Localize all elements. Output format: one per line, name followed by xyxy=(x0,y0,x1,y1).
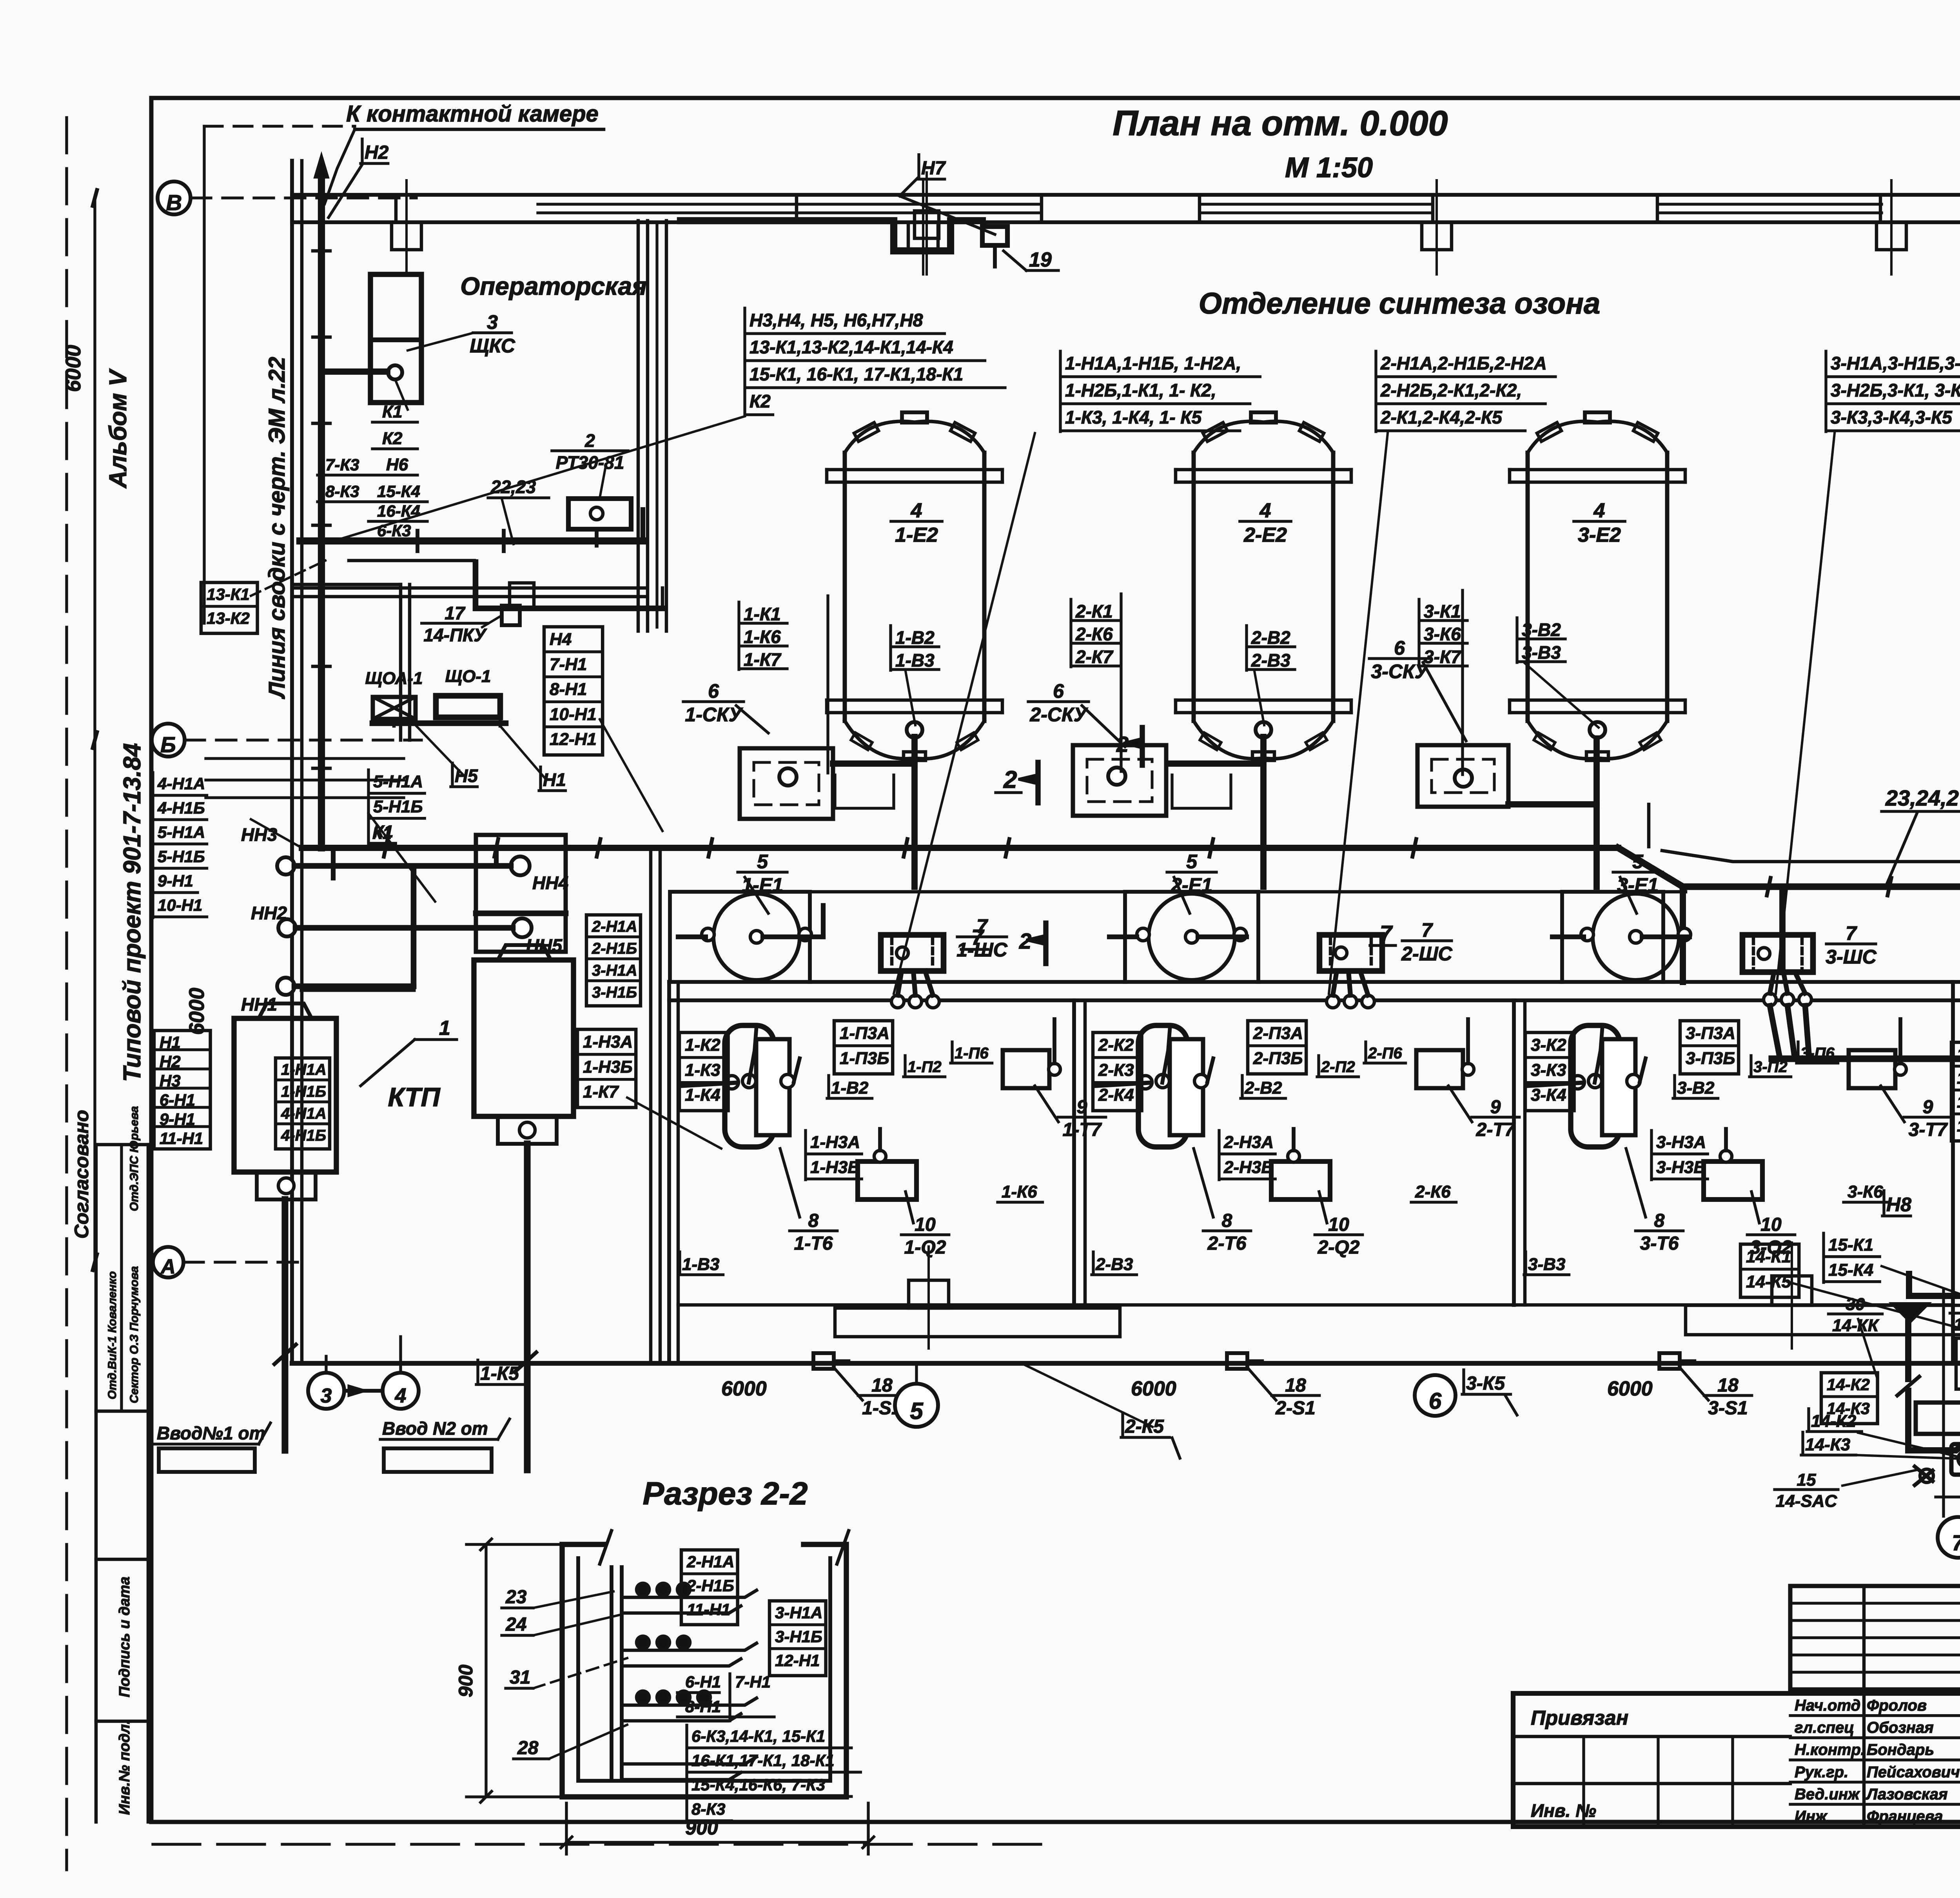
svg-text:Н1: Н1 xyxy=(160,1033,181,1052)
stack H1 H2 H3 left xyxy=(154,1031,211,1149)
label 1-K5 xyxy=(476,1360,479,1384)
column marks top xyxy=(392,180,421,274)
label H2 top xyxy=(361,139,363,163)
stack H4 7-H1 xyxy=(544,627,603,755)
svg-text:2-К1,2-К4,2-К5: 2-К1,2-К4,2-К5 xyxy=(1380,407,1503,427)
svg-text:1-К6: 1-К6 xyxy=(744,626,781,647)
svg-text:1-Н1А,1-Н1Б, 1-Н2А,: 1-Н1А,1-Н1Б, 1-Н2А, xyxy=(1065,353,1241,373)
compressor risers heavy xyxy=(1897,1322,1960,1450)
svg-text:1-ШС: 1-ШС xyxy=(956,939,1007,961)
svg-text:1-П2: 1-П2 xyxy=(907,1058,942,1076)
svg-text:1-Н3Б: 1-Н3Б xyxy=(810,1158,860,1177)
svg-text:3-В3: 3-В3 xyxy=(1528,1255,1565,1274)
svg-text:13-К2: 13-К2 xyxy=(207,609,250,628)
svg-text:3-К5: 3-К5 xyxy=(1466,1373,1505,1394)
svg-text:11-Н1: 11-Н1 xyxy=(687,1600,730,1619)
svg-text:7: 7 xyxy=(1846,922,1857,944)
cell 1 T7 xyxy=(1003,1050,1049,1088)
svg-text:1-В2: 1-В2 xyxy=(895,627,935,648)
svg-text:3-К1: 3-К1 xyxy=(1424,601,1461,621)
svg-text:15-К1, 16-К1, 17-К1,18-К1: 15-К1, 16-К1, 17-К1,18-К1 xyxy=(750,364,963,384)
svg-text:Отд.ВиК-1 Коваленко: Отд.ВиК-1 Коваленко xyxy=(106,1271,119,1399)
stack 1-H1A xyxy=(1059,351,1062,432)
vvod boxes xyxy=(159,1448,255,1472)
P connectors under ShS 3 xyxy=(1764,973,1811,1006)
svg-text:2-П3А: 2-П3А xyxy=(1253,1023,1303,1043)
svg-text:6000: 6000 xyxy=(1131,1377,1176,1400)
label 2-K5 xyxy=(1121,1413,1124,1437)
svg-text:ЩО-1: ЩО-1 xyxy=(445,667,491,686)
KTP feeder cables down xyxy=(274,1144,536,1470)
svg-text:Инв.№ подл.: Инв.№ подл. xyxy=(116,1720,133,1815)
drawing frame xyxy=(149,98,154,1822)
svg-text:2-ШС: 2-ШС xyxy=(1401,943,1452,965)
compressor units xyxy=(1916,1403,1960,1434)
svg-text:6: 6 xyxy=(1394,637,1405,659)
stack 1-H1A 1-H1B inside KTP xyxy=(276,1058,330,1149)
svg-text:Инж: Инж xyxy=(1795,1808,1828,1825)
svg-text:28: 28 xyxy=(517,1738,539,1758)
svg-text:2-Н2Б,2-К1,2-К2,: 2-Н2Б,2-К1,2-К2, xyxy=(1380,380,1522,400)
stack 14-K1 14-K5 xyxy=(1740,1244,1799,1297)
svg-text:Н4: Н4 xyxy=(550,630,572,649)
svg-text:5-Н1А: 5-Н1А xyxy=(158,823,205,842)
svg-text:1-Н3Б: 1-Н3Б xyxy=(583,1057,633,1076)
cell 2 S1 switch xyxy=(1227,1353,1247,1369)
leader stacks to pumps xyxy=(894,433,1035,994)
vessel 4075 xyxy=(1510,412,1685,760)
svg-text:6000: 6000 xyxy=(721,1377,767,1400)
svg-text:1-Н3А: 1-Н3А xyxy=(810,1132,860,1152)
cell platforms xyxy=(835,1308,1120,1337)
svg-text:2-П2: 2-П2 xyxy=(1321,1058,1355,1076)
heavy cable to contact chamber xyxy=(318,169,325,848)
KTP east wall xyxy=(649,848,653,1363)
svg-text:2-К2: 2-К2 xyxy=(1098,1035,1134,1054)
svg-text:9: 9 xyxy=(1923,1097,1933,1118)
svg-text:3-П6: 3-П6 xyxy=(1800,1045,1835,1062)
svg-text:Н8: Н8 xyxy=(1886,1194,1911,1216)
svg-text:2-Н1А: 2-Н1А xyxy=(592,918,637,935)
svg-text:3: 3 xyxy=(487,311,498,333)
svg-text:2-Q2: 2-Q2 xyxy=(1318,1237,1360,1258)
svg-text:16-К4: 16-К4 xyxy=(377,502,420,520)
svg-text:15-К4,16-К6, 7-К3: 15-К4,16-К6, 7-К3 xyxy=(691,1776,825,1794)
svg-text:6: 6 xyxy=(1429,1388,1442,1414)
svg-text:2-В3: 2-В3 xyxy=(1251,650,1290,670)
svg-text:7-К3: 7-К3 xyxy=(325,455,359,474)
svg-text:14-ПКУ: 14-ПКУ xyxy=(423,625,487,645)
SKU box xyxy=(740,748,833,819)
svg-text:17-К2: 17-К2 xyxy=(1957,1069,1960,1087)
svg-text:7: 7 xyxy=(976,915,988,937)
svg-text:1-Н3А: 1-Н3А xyxy=(583,1032,633,1051)
svg-text:1-К6: 1-К6 xyxy=(1002,1182,1037,1201)
svg-text:Рук.гр.: Рук.гр. xyxy=(1795,1764,1848,1781)
cell 2 wires xyxy=(1096,1083,1151,1086)
svg-text:Операторская: Операторская xyxy=(460,272,647,300)
svg-text:17-К1: 17-К1 xyxy=(1957,1045,1960,1063)
stack 5-H1A 5-H1B K1 xyxy=(367,770,370,844)
svg-text:13-К1,13-К2,14-К1,14-К4: 13-К1,13-К2,14-К1,14-К4 xyxy=(750,337,953,357)
stacks 1-V2 1-V3 xyxy=(889,626,892,670)
svg-text:6-Н1: 6-Н1 xyxy=(685,1673,721,1691)
top wall band xyxy=(292,195,1960,222)
pump 5 circle xyxy=(1581,894,1691,980)
svg-text:7: 7 xyxy=(1952,1530,1960,1555)
svg-text:15: 15 xyxy=(1797,1470,1816,1490)
svg-text:15-К4: 15-К4 xyxy=(1828,1260,1873,1279)
stack 15-K1 15-K4 xyxy=(1822,1233,1825,1283)
trunk right heavy xyxy=(1772,1049,1960,1069)
svg-text:Сектор О.З Порчумова: Сектор О.З Порчумова xyxy=(128,1266,141,1403)
svg-text:5-Н1Б: 5-Н1Б xyxy=(373,797,423,816)
svg-text:К2: К2 xyxy=(382,429,403,448)
svg-text:17-К3: 17-К3 xyxy=(1957,1092,1960,1111)
axis A circle xyxy=(153,1247,183,1277)
svg-text:Францева: Францева xyxy=(1867,1808,1943,1825)
svg-text:1-К1: 1-К1 xyxy=(744,604,781,624)
svg-text:4-Н1А: 4-Н1А xyxy=(281,1105,327,1122)
svg-text:1-К7: 1-К7 xyxy=(744,649,782,670)
pump bays xyxy=(670,892,810,982)
svg-text:18: 18 xyxy=(1717,1375,1739,1396)
svg-text:6-Н1: 6-Н1 xyxy=(160,1091,195,1109)
svg-text:М 1:50: М 1:50 xyxy=(1285,152,1373,183)
svg-text:Н1: Н1 xyxy=(543,769,566,790)
svg-text:Инв. №: Инв. № xyxy=(1531,1800,1596,1821)
P connectors under ShS 1 xyxy=(891,971,939,1008)
svg-text:5-Н1Б: 5-Н1Б xyxy=(158,847,205,866)
cell 1 Q2 xyxy=(858,1161,916,1199)
svg-text:2-П3Б: 2-П3Б xyxy=(1253,1049,1303,1068)
label H7 xyxy=(917,155,920,178)
svg-text:2-В2: 2-В2 xyxy=(1251,627,1290,648)
svg-text:3-К7: 3-К7 xyxy=(1424,646,1462,667)
svg-text:Отд.ЭПС Юрьева: Отд.ЭПС Юрьева xyxy=(128,1106,141,1211)
device RT30 xyxy=(568,499,631,546)
svg-text:900: 900 xyxy=(455,1664,477,1697)
svg-text:2-К3: 2-К3 xyxy=(1098,1060,1134,1080)
svg-text:10: 10 xyxy=(1760,1214,1782,1235)
leaders H5 H1 xyxy=(416,725,463,774)
svg-text:4: 4 xyxy=(1593,499,1605,522)
bay connecting line xyxy=(810,890,1125,894)
svg-text:1-Е1: 1-Е1 xyxy=(742,874,783,896)
svg-text:7: 7 xyxy=(1421,919,1433,941)
sheet outer edge line xyxy=(65,118,68,1870)
svg-text:8: 8 xyxy=(808,1210,819,1231)
ShS box xyxy=(1742,935,1813,972)
svg-text:3-Н1А,3-Н1Б,3-Н2А: 3-Н1А,3-Н1Б,3-Н2А xyxy=(1831,353,1960,373)
KTP transformer 1 xyxy=(234,1003,336,1199)
stack H3..K2 xyxy=(743,308,746,416)
svg-text:3-К6: 3-К6 xyxy=(1847,1182,1883,1201)
cells top wall xyxy=(669,980,1960,984)
svg-text:6000: 6000 xyxy=(1607,1377,1653,1400)
svg-text:К2: К2 xyxy=(750,391,771,411)
stack-to-SKU leader lines xyxy=(826,596,829,773)
svg-text:3-Н3Б: 3-Н3Б xyxy=(1656,1158,1706,1177)
svg-text:24: 24 xyxy=(505,1614,526,1635)
svg-text:3-П3А: 3-П3А xyxy=(1686,1023,1735,1043)
svg-text:6-К3,14-К1, 15-К1: 6-К3,14-К1, 15-К1 xyxy=(691,1727,825,1746)
svg-text:В: В xyxy=(166,190,182,215)
svg-text:2: 2 xyxy=(584,430,595,451)
motor switches xyxy=(1920,1469,1933,1482)
svg-text:3-СКУ: 3-СКУ xyxy=(1371,660,1429,682)
section flag 7 low xyxy=(961,925,988,949)
svg-text:2-Е2: 2-Е2 xyxy=(1243,524,1287,546)
pump 5 circle xyxy=(702,894,811,980)
svg-text:1-Н1Б: 1-Н1Б xyxy=(281,1083,326,1100)
svg-text:Ввод N2 от: Ввод N2 от xyxy=(382,1418,488,1439)
cell 1 wires xyxy=(682,1083,737,1086)
svg-text:3-Н3А: 3-Н3А xyxy=(1656,1132,1706,1152)
cell 3 T7 xyxy=(1849,1050,1895,1088)
svg-text:1-К4: 1-К4 xyxy=(685,1085,720,1105)
svg-text:4-Н1Б: 4-Н1Б xyxy=(281,1127,326,1144)
svg-text:1-К2: 1-К2 xyxy=(685,1035,720,1054)
svg-text:НН5: НН5 xyxy=(526,935,563,956)
svg-text:10: 10 xyxy=(1328,1214,1349,1235)
svg-text:11-Н1: 11-Н1 xyxy=(160,1129,203,1148)
SKU box xyxy=(1417,745,1508,807)
svg-text:2-П6: 2-П6 xyxy=(1368,1045,1402,1062)
section dim 900 bottom xyxy=(561,1803,874,1854)
svg-text:1-П6: 1-П6 xyxy=(955,1045,989,1062)
svg-text:Н3,Н4, Н5, Н6,Н7,Н8: Н3,Н4, Н5, Н6,Н7,Н8 xyxy=(750,310,923,330)
svg-text:Н.контр.: Н.контр. xyxy=(1795,1741,1865,1758)
svg-text:14-К5: 14-К5 xyxy=(1746,1272,1791,1291)
svg-text:23: 23 xyxy=(505,1587,527,1608)
KTP transformer 2 xyxy=(474,945,573,1144)
svg-text:2: 2 xyxy=(1003,766,1017,793)
svg-text:4-Н1Б: 4-Н1Б xyxy=(157,799,205,817)
svg-text:К контактной камере: К контактной камере xyxy=(346,101,599,127)
boxed 13-K1 13-K2 xyxy=(201,582,258,633)
svg-text:3-Т7: 3-Т7 xyxy=(1909,1120,1948,1140)
compressor leaders xyxy=(1842,1470,1917,1486)
compressor motors xyxy=(1951,1444,1960,1475)
axis V circle xyxy=(158,181,191,214)
south wall xyxy=(292,1361,1960,1366)
svg-text:2-Т6: 2-Т6 xyxy=(1207,1233,1247,1254)
svg-text:1: 1 xyxy=(439,1017,450,1040)
svg-text:1-Е2: 1-Е2 xyxy=(895,524,938,546)
svg-text:3-В2: 3-В2 xyxy=(1677,1078,1715,1098)
svg-text:НН1: НН1 xyxy=(241,994,277,1014)
svg-text:2-СКУ: 2-СКУ xyxy=(1029,704,1088,726)
svg-text:3-К6: 3-К6 xyxy=(1424,624,1461,644)
machine T6 xyxy=(1571,1025,1640,1147)
svg-text:6000: 6000 xyxy=(62,345,85,392)
svg-text:ЩОА-1: ЩОА-1 xyxy=(365,669,423,688)
svg-text:5-Н1А: 5-Н1А xyxy=(373,772,423,791)
svg-text:2-В3: 2-В3 xyxy=(1095,1255,1133,1274)
svg-text:2-Н3А: 2-Н3А xyxy=(1223,1132,1274,1152)
svg-text:9: 9 xyxy=(1490,1097,1501,1118)
svg-text:Н5: Н5 xyxy=(455,766,478,786)
svg-text:14-К1: 14-К1 xyxy=(1746,1247,1791,1266)
svg-text:3-Н1Б: 3-Н1Б xyxy=(775,1628,822,1646)
stacks 1-K1 1-K6 1-K7 vessels xyxy=(737,602,740,670)
svg-text:17: 17 xyxy=(445,603,466,623)
H8 grid line xyxy=(1942,1290,1945,1516)
label H8 xyxy=(1882,1191,1885,1216)
svg-text:РТ30-81: РТ30-81 xyxy=(556,452,624,473)
svg-text:1-К7: 1-К7 xyxy=(583,1082,619,1101)
svg-text:14-К2: 14-К2 xyxy=(1827,1375,1870,1394)
grid circle 6 xyxy=(1415,1375,1455,1416)
svg-text:1-П3Б: 1-П3Б xyxy=(840,1049,889,1068)
svg-text:13-К1: 13-К1 xyxy=(207,585,250,604)
svg-text:Подпись и дата: Подпись и дата xyxy=(116,1577,133,1697)
svg-text:2-К4: 2-К4 xyxy=(1098,1085,1134,1105)
svg-text:3-В2: 3-В2 xyxy=(1522,619,1561,640)
cell 3 wires xyxy=(1528,1083,1583,1086)
svg-text:14-SAC: 14-SAC xyxy=(1776,1492,1838,1511)
svg-text:8-К3: 8-К3 xyxy=(325,482,359,501)
svg-text:1-К5: 1-К5 xyxy=(480,1363,519,1384)
svg-text:3-К2: 3-К2 xyxy=(1531,1035,1566,1054)
svg-text:Н7: Н7 xyxy=(921,158,946,179)
svg-text:8-Н1: 8-Н1 xyxy=(685,1697,721,1716)
svg-text:6000: 6000 xyxy=(185,988,209,1035)
svg-text:5: 5 xyxy=(757,851,768,873)
cell 3 Q2 xyxy=(1704,1161,1762,1199)
svg-text:2-Н1А,2-Н1Б,2-Н2А: 2-Н1А,2-Н1Б,2-Н2А xyxy=(1380,353,1547,373)
svg-text:2-К5: 2-К5 xyxy=(1125,1416,1164,1437)
section flag 2 low xyxy=(1019,923,1046,964)
section 2-2 channel xyxy=(562,1531,849,1797)
svg-text:10-Н1: 10-Н1 xyxy=(550,705,597,724)
svg-text:5: 5 xyxy=(1632,851,1644,873)
svg-text:Фролов: Фролов xyxy=(1867,1697,1927,1714)
section flag 2 mid b xyxy=(1116,728,1142,765)
machine T6 xyxy=(1138,1025,1208,1147)
svg-text:15-К1: 15-К1 xyxy=(1828,1235,1873,1254)
svg-text:4: 4 xyxy=(395,1384,407,1407)
svg-text:5: 5 xyxy=(910,1398,924,1424)
svg-text:2-К6: 2-К6 xyxy=(1075,624,1113,644)
svg-text:2-К7: 2-К7 xyxy=(1075,646,1114,667)
svg-text:Н2: Н2 xyxy=(365,142,389,163)
cell 3 S1 switch xyxy=(1659,1353,1680,1369)
axis line bottom right xyxy=(1936,1495,1960,1498)
svg-text:НН3: НН3 xyxy=(241,824,277,845)
svg-text:1-Q2: 1-Q2 xyxy=(904,1237,946,1258)
svg-text:Линия сводки с черт. ЭМ л.22: Линия сводки с черт. ЭМ л.22 xyxy=(264,357,290,699)
svg-text:1-Т6: 1-Т6 xyxy=(794,1233,833,1254)
trunk mid heavy xyxy=(1618,848,1960,1059)
svg-text:7-Н1: 7-Н1 xyxy=(735,1673,771,1691)
svg-text:Разрез 2-2: Разрез 2-2 xyxy=(643,1476,808,1512)
svg-text:2-Н3Б: 2-Н3Б xyxy=(1223,1158,1274,1177)
svg-text:10: 10 xyxy=(915,1214,936,1235)
svg-text:31: 31 xyxy=(510,1667,530,1688)
funnel feeder heavy xyxy=(1906,1274,1912,1296)
svg-text:18: 18 xyxy=(871,1375,893,1396)
svg-text:А: А xyxy=(160,1256,176,1278)
svg-text:3: 3 xyxy=(321,1384,332,1407)
svg-text:1-Н2Б,1-К1, 1- К2,: 1-Н2Б,1-К1, 1- К2, xyxy=(1065,380,1216,400)
svg-text:Вед.инж: Вед.инж xyxy=(1795,1785,1860,1803)
section flag 7 cell2 xyxy=(1370,921,1396,945)
ShS box xyxy=(881,935,944,971)
svg-text:3-Н1А: 3-Н1А xyxy=(775,1604,822,1622)
svg-text:3-Н1А: 3-Н1А xyxy=(592,962,637,979)
svg-text:2-К1: 2-К1 xyxy=(1075,601,1113,621)
svg-text:2-В2: 2-В2 xyxy=(1244,1078,1282,1098)
svg-text:Отделение синтеза озона: Отделение синтеза озона xyxy=(1199,287,1601,320)
svg-text:9: 9 xyxy=(1077,1097,1087,1118)
vessel 3223 xyxy=(1176,412,1351,760)
SKU box xyxy=(1073,745,1166,816)
fold line bottom xyxy=(153,1843,1058,1845)
svg-text:1-Н1А: 1-Н1А xyxy=(281,1061,327,1078)
P connectors under ShS 2 xyxy=(1327,971,1374,1008)
interior walls left block xyxy=(206,561,662,798)
svg-text:2-S1: 2-S1 xyxy=(1275,1398,1315,1419)
cell 2 Q2 xyxy=(1271,1161,1330,1199)
svg-text:ЩКС: ЩКС xyxy=(470,335,515,357)
dimension 6000 left xyxy=(93,198,96,1262)
svg-text:30: 30 xyxy=(1846,1295,1865,1314)
svg-text:НН4: НН4 xyxy=(532,873,568,893)
heavy trunk upper-left horizontal xyxy=(300,537,643,544)
svg-text:Альбом V: Альбом V xyxy=(105,368,132,489)
vessel drop cables heavy xyxy=(833,737,1649,887)
svg-text:17К4: 17К4 xyxy=(1957,1116,1960,1135)
cell 1 S1 switch xyxy=(813,1353,834,1369)
stack 4-H1A group xyxy=(151,773,154,918)
stamp column xyxy=(96,1106,148,1822)
cell 2 T7 xyxy=(1416,1050,1463,1088)
title block table xyxy=(1513,1586,1960,1827)
svg-text:5: 5 xyxy=(1186,851,1198,873)
svg-text:3-ШС: 3-ШС xyxy=(1826,946,1877,968)
svg-text:К1: К1 xyxy=(382,402,403,421)
svg-text:14-К3: 14-К3 xyxy=(1827,1399,1870,1418)
funnels row 30 xyxy=(1891,1303,1929,1322)
svg-text:2-Н1Б: 2-Н1Б xyxy=(686,1577,734,1595)
svg-text:гл.спец: гл.спец xyxy=(1795,1719,1854,1737)
svg-text:1-Т7: 1-Т7 xyxy=(1063,1120,1102,1140)
svg-text:15-КК: 15-КК xyxy=(1954,1315,1960,1334)
svg-text:3-Н2Б,3-К1, 3-К2,: 3-Н2Б,3-К1, 3-К2, xyxy=(1831,380,1960,400)
svg-text:14-КК: 14-КК xyxy=(1832,1316,1880,1335)
svg-text:18: 18 xyxy=(1285,1375,1306,1396)
vessel 2333 xyxy=(827,412,1002,760)
grid circle 5 xyxy=(895,1384,938,1427)
svg-text:Бондарь: Бондарь xyxy=(1867,1741,1934,1758)
cable shaft section xyxy=(610,1567,613,1780)
stack 3-H1A xyxy=(1824,351,1827,432)
svg-text:Типовой проект 901-7-13.84: Типовой проект 901-7-13.84 xyxy=(119,743,146,1082)
stack K1 K2 H6 xyxy=(318,379,427,541)
stack 17-K xyxy=(1951,1042,1960,1141)
KTP cabinet upper xyxy=(476,835,566,952)
svg-text:1-П3А: 1-П3А xyxy=(840,1023,889,1043)
pump port links heavy xyxy=(678,905,1690,937)
operator room walls xyxy=(204,126,1007,1363)
svg-text:Обозная: Обозная xyxy=(1867,1719,1934,1737)
svg-text:4: 4 xyxy=(911,499,922,522)
section flag 2 mid xyxy=(996,762,1038,803)
svg-text:1-В3: 1-В3 xyxy=(682,1255,719,1274)
pump 5 circle xyxy=(1137,894,1247,980)
